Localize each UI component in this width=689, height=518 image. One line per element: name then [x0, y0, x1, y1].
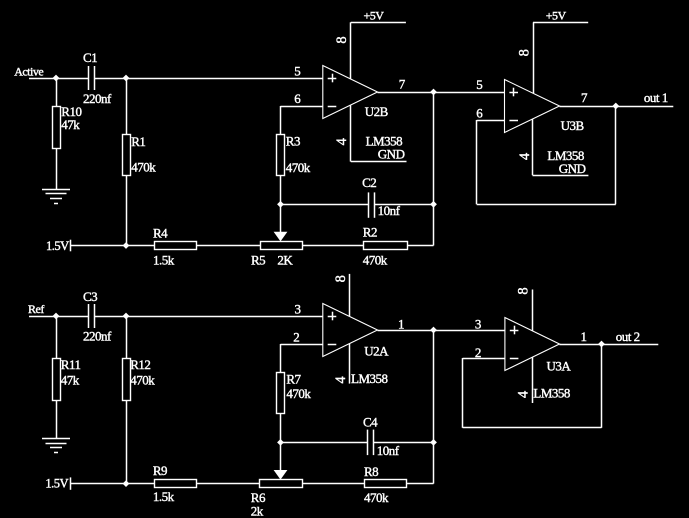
resistor R8 470k	[365, 480, 407, 488]
junction R12/rail	[123, 480, 130, 487]
svg-text:470k: 470k	[286, 160, 311, 175]
resistor R12 470k	[126, 316, 128, 358]
wiper arrow of R6	[280, 442, 282, 471]
capacitor C2 10nf	[281, 204, 369, 206]
svg-text:47k: 47k	[61, 373, 80, 388]
svg-text:8: 8	[333, 275, 349, 282]
svg-text:8: 8	[517, 49, 533, 56]
svg-text:U2A: U2A	[364, 344, 389, 359]
svg-text:5: 5	[294, 63, 300, 78]
junction Active/R10	[53, 75, 60, 82]
svg-text:U3B: U3B	[561, 118, 585, 133]
pin 8 stub of U2A	[349, 274, 351, 317]
svg-text:out 2: out 2	[616, 329, 640, 344]
svg-text:2K: 2K	[277, 253, 293, 268]
power +5V of U2B pin 8	[350, 22, 352, 79]
svg-text:R6: R6	[251, 490, 266, 505]
svg-text:R11: R11	[61, 357, 81, 372]
wire U2B output to U3B pin 5	[378, 92, 505, 94]
svg-text:1: 1	[581, 329, 587, 344]
capacitor C3	[88, 304, 90, 328]
power +5V of U3B pin 8	[533, 22, 535, 93]
svg-text:3: 3	[295, 301, 301, 316]
wiper arrow of R5	[280, 204, 282, 233]
svg-text:1.5V: 1.5V	[46, 239, 69, 253]
op-amp U2A	[323, 304, 378, 357]
svg-text:470k: 470k	[131, 160, 156, 175]
svg-text:U3A: U3A	[547, 358, 572, 373]
wire rail segment 2	[197, 245, 261, 247]
svg-text:47k: 47k	[61, 117, 80, 132]
svg-text:R12: R12	[130, 357, 150, 372]
wire feedback vertical to U2A output	[433, 330, 435, 484]
svg-text:Ref: Ref	[28, 302, 44, 316]
svg-text:LM358: LM358	[351, 371, 388, 386]
svg-text:out 1: out 1	[644, 90, 668, 105]
svg-text:10nf: 10nf	[378, 203, 401, 218]
svg-text:5: 5	[476, 77, 482, 92]
svg-text:7: 7	[399, 76, 406, 91]
pin 4 stub of U3A	[532, 357, 534, 403]
resistor R4 1.5k	[155, 242, 197, 250]
svg-text:U2B: U2B	[365, 104, 389, 119]
svg-text:2k: 2k	[251, 504, 264, 518]
svg-text:Active: Active	[14, 64, 43, 78]
junction R3/wiper/C2	[277, 201, 284, 208]
wire C3 to U2A pin 3	[95, 316, 323, 318]
svg-text:R2: R2	[363, 225, 377, 240]
svg-text:6: 6	[294, 91, 301, 106]
svg-text:C4: C4	[363, 415, 378, 430]
svg-text:8: 8	[516, 288, 532, 295]
svg-text:C1: C1	[83, 50, 97, 65]
junction R1/rail	[123, 242, 130, 249]
wire bottom rail segment 3	[302, 483, 364, 485]
svg-text:1.5k: 1.5k	[153, 253, 175, 268]
op-amp U3A	[505, 318, 560, 371]
wire rail segment 4	[407, 245, 434, 247]
svg-text:470k: 470k	[286, 386, 311, 401]
resistor R10 47k	[56, 78, 58, 107]
resistor R1 470k	[126, 78, 128, 135]
pin 4 of U2B to GND	[350, 105, 352, 162]
svg-text:7: 7	[581, 90, 588, 105]
svg-text:R1: R1	[131, 134, 145, 149]
svg-text:470k: 470k	[130, 373, 155, 388]
svg-text:220nf: 220nf	[83, 91, 112, 106]
junction U2B output/feedback	[430, 89, 437, 96]
junction U3A output/feedback	[598, 341, 605, 348]
op-amp U2B	[323, 66, 378, 119]
svg-text:R8: R8	[364, 464, 378, 479]
svg-text:C3: C3	[83, 289, 97, 304]
wire bottom rail segment 1	[71, 483, 154, 485]
resistor R9 1.5k	[155, 480, 197, 488]
svg-text:8: 8	[334, 37, 350, 44]
svg-text:220nf: 220nf	[83, 328, 112, 343]
svg-text:R9: R9	[153, 463, 167, 478]
svg-text:2: 2	[475, 345, 481, 360]
wire 1.5V rail segment 1	[71, 245, 154, 247]
wire U3B output / out 1	[560, 106, 674, 108]
svg-text:LM358: LM358	[533, 385, 570, 400]
ground below R10	[42, 189, 70, 191]
junction C2/feedback	[430, 201, 437, 208]
wire C1 to U2B pin 5	[95, 78, 323, 80]
svg-text:1.5V: 1.5V	[45, 477, 68, 491]
svg-text:C2: C2	[362, 175, 376, 190]
potentiometer R6 2k	[260, 480, 303, 488]
junction R7/wiper/C4	[277, 439, 284, 446]
pin 8 stub of U3A	[532, 290, 534, 331]
svg-text:GND: GND	[559, 161, 586, 176]
svg-text:+5V: +5V	[364, 8, 385, 22]
wire U2A output to U3A pin 3	[378, 330, 505, 332]
junction C4/feedback	[430, 439, 437, 446]
svg-text:1: 1	[398, 316, 404, 331]
wire U3A feedback pin 2	[463, 358, 505, 360]
svg-text:10nf: 10nf	[377, 443, 400, 458]
svg-text:GND: GND	[378, 146, 405, 161]
svg-text:R7: R7	[286, 371, 301, 386]
svg-text:R4: R4	[153, 225, 168, 240]
svg-text:R3: R3	[286, 134, 300, 149]
svg-text:470k: 470k	[364, 490, 389, 505]
svg-text:470k: 470k	[363, 253, 388, 268]
wire bottom rail segment 2	[196, 483, 259, 485]
pin 4 of U3B to GND	[532, 119, 534, 175]
resistor R2 470k	[364, 242, 408, 250]
wire feedback vertical to U2B output	[433, 92, 435, 246]
capacitor C4 10nf	[281, 442, 368, 444]
svg-text:2: 2	[293, 329, 299, 344]
svg-text:R5: R5	[251, 253, 265, 268]
svg-text:6: 6	[476, 106, 483, 121]
junction Ref/R11	[53, 313, 60, 320]
wire U3B feedback pin 6	[477, 120, 505, 122]
op-amp U3B	[505, 80, 560, 133]
wire rail segment 3	[302, 245, 364, 247]
resistor R3 470k	[281, 106, 323, 108]
wire U3A output / out 2	[560, 344, 659, 346]
resistor R11 47k	[56, 316, 58, 358]
resistor R7 470k	[281, 344, 323, 346]
pin 4 stub of U2A	[349, 343, 351, 383]
junction C1/R1	[123, 75, 130, 82]
wire Ref net to C3	[29, 316, 88, 318]
junction U2A output/feedback	[430, 327, 437, 334]
svg-text:3: 3	[475, 316, 481, 331]
capacitor C1	[88, 66, 90, 90]
svg-text:+5V: +5V	[546, 8, 567, 22]
wire bottom rail segment 4	[406, 483, 433, 485]
junction U3B output/feedback	[612, 103, 619, 110]
wire Active net to C1	[29, 78, 88, 80]
junction C3/R12	[123, 313, 130, 320]
ground below R11	[42, 438, 70, 440]
svg-text:1.5k: 1.5k	[153, 489, 175, 504]
potentiometer R5 2K	[261, 242, 303, 250]
